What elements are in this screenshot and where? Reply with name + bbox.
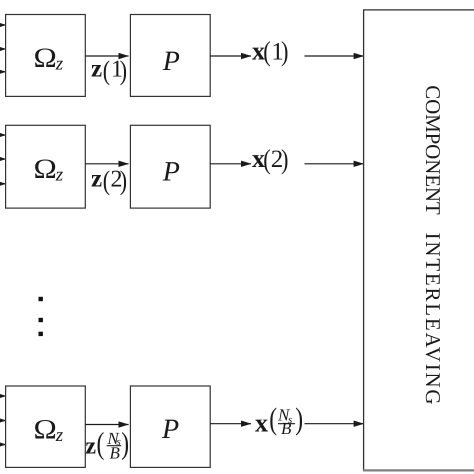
svg-text:(: (: [103, 55, 110, 86]
label omega-z row1: [34, 43, 64, 74]
label x(2): [252, 144, 288, 175]
interleaver bottom edge: [363, 469, 474, 471]
svg-text:B: B: [110, 443, 121, 462]
svg-text:P: P: [161, 414, 179, 445]
svg-text:P: P: [162, 157, 180, 188]
svg-text:Ω: Ω: [34, 43, 57, 74]
svg-text:x: x: [255, 408, 268, 437]
input arrow row3 c: [0, 444, 6, 446]
svg-text:COMPONENT: COMPONENT: [421, 85, 445, 215]
svg-text:z: z: [85, 434, 96, 460]
block omega-z row1: [6, 15, 86, 97]
svg-text:(: (: [103, 165, 110, 196]
label z(2): [91, 165, 127, 196]
svg-text:(: (: [269, 401, 277, 436]
svg-text:B: B: [281, 419, 292, 438]
input arrow row3 b: [0, 420, 6, 422]
svg-text:z: z: [55, 425, 64, 446]
label x(1): [252, 36, 288, 67]
block P row1: [130, 15, 210, 97]
svg-text:z: z: [55, 165, 64, 186]
wire x2-to-interleaver: [305, 163, 364, 165]
input arrow row2 a: [0, 134, 6, 136]
label z(1): [91, 55, 127, 86]
label z(Ns/B): [85, 426, 129, 463]
wire x1-to-interleaver: [305, 55, 364, 57]
label omega-z row2: [34, 154, 64, 186]
svg-text:z: z: [91, 166, 102, 193]
label omega-z row3: [34, 415, 64, 446]
svg-text:z: z: [55, 53, 64, 74]
wire P-out row2: [210, 163, 251, 165]
input arrow row2 c: [0, 183, 6, 185]
block P row3: [130, 386, 210, 467]
wire x3-to-interleaver: [305, 423, 364, 425]
svg-text:(: (: [263, 37, 270, 68]
block component-interleaving: [364, 10, 474, 471]
block P row2: [130, 125, 210, 208]
wire P-out row3: [210, 423, 251, 425]
input arrow row2 b: [0, 158, 6, 160]
wire omega-to-P row3: [85, 424, 128, 426]
input arrow row1 a: [0, 24, 6, 26]
svg-text:): ): [121, 426, 129, 461]
svg-text:Ω: Ω: [34, 154, 57, 185]
svg-text:(: (: [263, 144, 270, 175]
svg-text:z: z: [91, 56, 102, 83]
svg-text:): ): [120, 165, 127, 196]
svg-text:P: P: [162, 46, 180, 77]
input arrow row1 b: [0, 48, 6, 50]
wire omega-to-P row2: [85, 163, 128, 165]
svg-text:(: (: [97, 426, 105, 461]
vertical ellipsis dots: [39, 297, 43, 336]
input arrow row1 c: [0, 71, 6, 73]
label x(Ns/B): [255, 401, 303, 438]
svg-text:INTERLEAVING: INTERLEAVING: [421, 233, 445, 405]
svg-text:Ω: Ω: [34, 415, 57, 446]
block omega-z row3: [6, 386, 86, 467]
svg-text:): ): [120, 55, 127, 86]
wire P-out row1: [210, 55, 251, 57]
input arrow row3 a: [0, 395, 6, 397]
svg-text:): ): [295, 401, 303, 436]
wire omega-to-P row1: [85, 55, 128, 57]
svg-text:): ): [281, 144, 288, 175]
block omega-z row2: [6, 125, 86, 208]
svg-text:): ): [281, 37, 288, 68]
